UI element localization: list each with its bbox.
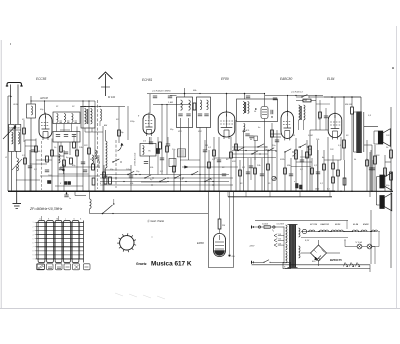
svg-text:2x100k: 2x100k bbox=[261, 223, 269, 225]
svg-text:EABC80: EABC80 bbox=[321, 223, 330, 226]
svg-text:125: 125 bbox=[278, 234, 281, 236]
svg-text:150: 150 bbox=[278, 239, 281, 241]
svg-text:0,1: 0,1 bbox=[300, 169, 303, 171]
svg-text:EM80: EM80 bbox=[363, 224, 369, 226]
svg-text:ECH81: ECH81 bbox=[142, 78, 153, 82]
svg-text:5M 5W: 5M 5W bbox=[345, 104, 353, 106]
svg-text:EF89: EF89 bbox=[335, 224, 341, 226]
svg-text:M 10k: M 10k bbox=[108, 95, 116, 99]
svg-text:2n: 2n bbox=[68, 198, 71, 200]
svg-text:zum Drehko: zum Drehko bbox=[98, 154, 101, 169]
svg-text:0,1: 0,1 bbox=[327, 189, 330, 191]
svg-text:EM80: EM80 bbox=[197, 241, 204, 245]
svg-text:100n: 100n bbox=[315, 189, 319, 191]
svg-text:0,5M: 0,5M bbox=[308, 135, 313, 137]
svg-text:Ⓐ Gedr. Platte: Ⓐ Gedr. Platte bbox=[147, 219, 165, 223]
svg-text:F1: F1 bbox=[56, 106, 58, 108]
svg-text:B250C75: B250C75 bbox=[330, 258, 342, 262]
svg-text:Musica 617 K: Musica 617 K bbox=[151, 261, 192, 268]
svg-text:am RuBaB 7,5MHz: am RuBaB 7,5MHz bbox=[152, 91, 172, 93]
svg-text:4,7M: 4,7M bbox=[302, 99, 307, 102]
svg-text:1M: 1M bbox=[205, 145, 208, 147]
svg-text:L: L bbox=[65, 219, 66, 221]
svg-text:AM FM: AM FM bbox=[39, 97, 48, 100]
svg-text:220: 220 bbox=[277, 244, 281, 246]
svg-text:EL84: EL84 bbox=[353, 223, 359, 226]
svg-text:0,1: 0,1 bbox=[34, 169, 37, 171]
svg-text:1M: 1M bbox=[222, 225, 225, 227]
svg-text:0,1/250V: 0,1/250V bbox=[277, 223, 285, 225]
svg-text:220V: 220V bbox=[249, 246, 255, 248]
svg-text:ECC85: ECC85 bbox=[36, 77, 47, 81]
svg-text:200p: 200p bbox=[129, 121, 135, 123]
svg-text:UKW-Bereich: UKW-Bereich bbox=[135, 152, 137, 166]
svg-text:0,1: 0,1 bbox=[180, 179, 183, 181]
svg-text:7V 0,3A: 7V 0,3A bbox=[355, 241, 362, 244]
svg-text:6,3V: 6,3V bbox=[305, 240, 310, 242]
svg-text:0,1: 0,1 bbox=[320, 183, 323, 185]
svg-text:am RuB 6,3: am RuB 6,3 bbox=[291, 92, 303, 94]
svg-text:EL84: EL84 bbox=[327, 77, 335, 81]
svg-text:ZF=460kHz+10,7MHz: ZF=460kHz+10,7MHz bbox=[29, 207, 63, 211]
svg-text:Ratio: Ratio bbox=[264, 148, 270, 151]
svg-text:1,4M: 1,4M bbox=[168, 101, 173, 104]
svg-text:ZF1: ZF1 bbox=[177, 131, 182, 133]
svg-text:AM: AM bbox=[103, 124, 107, 127]
svg-text:Graetz: Graetz bbox=[136, 262, 147, 266]
svg-text:EF89: EF89 bbox=[221, 77, 229, 81]
svg-text:2M: 2M bbox=[291, 135, 295, 137]
svg-text:L1: L1 bbox=[5, 157, 7, 159]
svg-text:EABC80: EABC80 bbox=[280, 77, 292, 81]
svg-text:ECC85: ECC85 bbox=[310, 224, 318, 226]
svg-text:0,1: 0,1 bbox=[160, 171, 163, 173]
svg-text:0,1: 0,1 bbox=[338, 145, 341, 147]
svg-text:2M: 2M bbox=[89, 159, 93, 161]
